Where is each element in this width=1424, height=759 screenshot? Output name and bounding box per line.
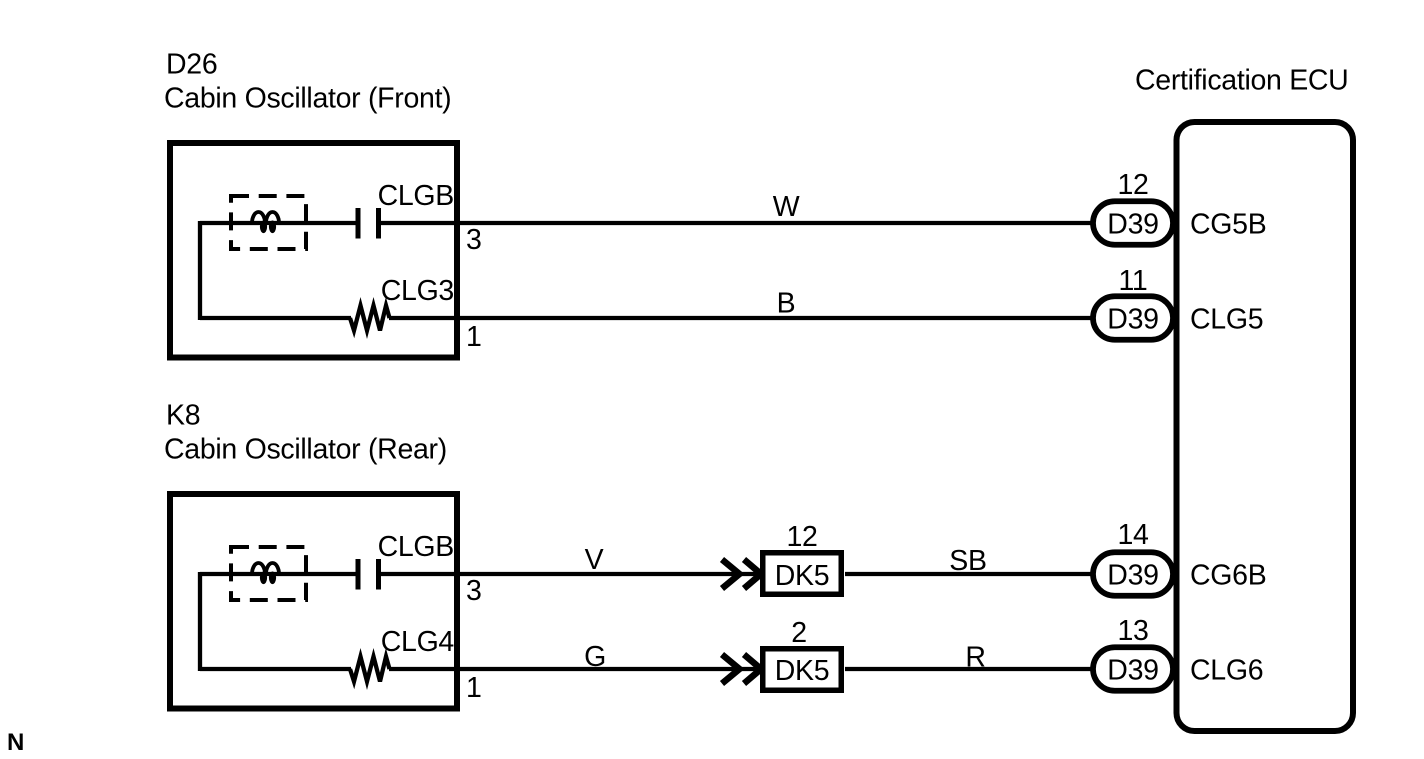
dashed box around oscillator K8 bbox=[231, 547, 306, 600]
component box D26 bbox=[170, 143, 457, 358]
svg-text:D26: D26 bbox=[166, 49, 217, 81]
wire row3 middle segment to DK5 bbox=[381, 572, 760, 576]
chevron connector arrows row3 bbox=[722, 560, 761, 589]
component box K8 bbox=[170, 494, 457, 709]
svg-text:Cabin Oscillator (Front): Cabin Oscillator (Front) bbox=[164, 82, 451, 114]
connector D39 row4 bbox=[1093, 647, 1173, 691]
svg-text:11: 11 bbox=[1119, 265, 1148, 297]
wire row4 middle segment to DK5 bbox=[389, 667, 760, 671]
svg-text:Certification ECU: Certification ECU bbox=[1135, 65, 1348, 97]
wire color labels bbox=[584, 191, 987, 674]
svg-text:CLG5: CLG5 bbox=[1190, 304, 1263, 336]
svg-text:1: 1 bbox=[466, 321, 482, 353]
svg-text:D39: D39 bbox=[1107, 560, 1158, 592]
wire row1 left segment bbox=[200, 221, 356, 225]
DK5 box row3 bbox=[763, 553, 842, 595]
svg-text:G: G bbox=[584, 641, 606, 673]
resistor K8 (CLG4) bbox=[350, 657, 390, 682]
svg-text:Cabin Oscillator (Rear): Cabin Oscillator (Rear) bbox=[164, 433, 447, 465]
wire row1 right segment to D39 bbox=[381, 221, 1091, 225]
wire vertical K8 bbox=[198, 572, 202, 671]
pin labels D26 bbox=[378, 180, 482, 353]
svg-text:K8: K8 bbox=[166, 400, 200, 432]
wire row4 left segment bbox=[200, 667, 351, 671]
svg-text:3: 3 bbox=[466, 224, 482, 256]
svg-text:DK5: DK5 bbox=[775, 655, 830, 687]
component K8 title bbox=[164, 400, 447, 466]
svg-text:12: 12 bbox=[1117, 169, 1148, 201]
connector D39 row3 bbox=[1093, 552, 1173, 596]
wire row2 left segment bbox=[200, 316, 351, 320]
wire row3 left segment bbox=[200, 572, 356, 576]
svg-text:12: 12 bbox=[786, 521, 817, 553]
component D26 title bbox=[164, 49, 451, 115]
svg-text:D39: D39 bbox=[1107, 655, 1158, 687]
svg-text:CG5B: CG5B bbox=[1190, 209, 1266, 241]
svg-text:N: N bbox=[7, 729, 24, 756]
svg-text:W: W bbox=[773, 191, 800, 223]
svg-text:SB: SB bbox=[949, 545, 986, 577]
DK5 box row4 bbox=[763, 649, 842, 691]
svg-text:CLGB: CLGB bbox=[378, 531, 454, 563]
svg-text:14: 14 bbox=[1117, 519, 1149, 551]
svg-text:1: 1 bbox=[466, 672, 482, 704]
ECU box U1 bbox=[1177, 122, 1354, 731]
resistor D26 (CLG3) bbox=[350, 306, 390, 331]
svg-text:CLG4: CLG4 bbox=[381, 626, 455, 658]
svg-text:3: 3 bbox=[466, 575, 482, 607]
svg-text:CLGB: CLGB bbox=[378, 180, 454, 212]
svg-text:CLG3: CLG3 bbox=[381, 275, 454, 307]
pin labels K8 bbox=[378, 531, 482, 704]
svg-text:D39: D39 bbox=[1107, 304, 1158, 336]
svg-text:D39: D39 bbox=[1107, 209, 1158, 241]
wire vertical D26 bbox=[198, 221, 202, 320]
wire row2 right segment to D39 bbox=[389, 316, 1091, 320]
svg-text:B: B bbox=[777, 288, 796, 320]
capacitor K8 bbox=[356, 559, 382, 590]
capacitor D26 bbox=[356, 208, 382, 239]
svg-text:2: 2 bbox=[791, 617, 807, 649]
wire row3 right segment to D39 bbox=[845, 572, 1091, 576]
svg-text:CLG6: CLG6 bbox=[1190, 655, 1263, 687]
svg-text:CG6B: CG6B bbox=[1190, 560, 1266, 592]
oscillator coil K8 bbox=[252, 563, 279, 584]
svg-text:V: V bbox=[585, 544, 604, 576]
chevron connector arrows row4 bbox=[722, 655, 761, 684]
wire row4 right segment to D39 bbox=[845, 667, 1091, 671]
svg-text:R: R bbox=[965, 642, 985, 674]
connector D39 row1 bbox=[1093, 201, 1173, 245]
dashed box around oscillator D26 bbox=[231, 196, 306, 249]
svg-text:DK5: DK5 bbox=[775, 560, 830, 592]
connector D39 row2 bbox=[1093, 296, 1173, 340]
svg-text:13: 13 bbox=[1117, 615, 1148, 647]
oscillator coil D26 bbox=[252, 212, 279, 233]
